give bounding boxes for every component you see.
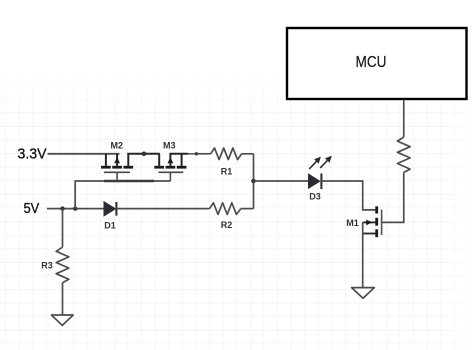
wire R1 down to junction (253, 154, 255, 209)
bulk lead M1 with arrow (363, 221, 376, 223)
resistor R2 (210, 203, 254, 215)
transistor M2 (pass FET) (101, 154, 133, 181)
wire R4 to gate of M1 (382, 172, 403, 222)
wire MCU to resistor R4 (403, 100, 405, 138)
gate lead M3 (169, 172, 171, 181)
gate plate M3 (159, 171, 184, 173)
resistor R1 (197, 148, 254, 160)
gate lead M2 (116, 172, 118, 181)
wire M3 to node A (188, 153, 196, 155)
wire source/bulk down to ground (362, 222, 364, 287)
svg-text:MCU: MCU (356, 54, 387, 71)
LED arrow 2 (320, 160, 328, 168)
diode D1 (104, 202, 210, 216)
svg-text:5V: 5V (24, 200, 40, 217)
LED arrow 1 (309, 161, 317, 169)
gate plate M2 (104, 171, 130, 173)
ground symbol right (352, 288, 375, 299)
stub bulk M3 with arrow (169, 154, 171, 166)
junction dot 5V/gate bus (73, 206, 77, 210)
wire D3 to M1 drain (321, 181, 375, 210)
source lead M1 (363, 233, 376, 235)
gate plate M1 (381, 210, 383, 235)
wire M3 source rail (169, 153, 188, 155)
node A dot (195, 152, 198, 155)
stub bulk M2 with arrow (116, 154, 118, 166)
stub drain M3 (158, 154, 160, 166)
channel bars M1 (375, 206, 378, 213)
svg-text:D3: D3 (309, 192, 321, 202)
LED D3 (309, 156, 332, 189)
svg-text:M2: M2 (111, 141, 124, 151)
junction dot R1/R2/D3 (251, 179, 256, 184)
svg-text:R2: R2 (221, 220, 233, 230)
junction dot 5V/R3 (60, 206, 64, 210)
wire 5V to R3 (62, 209, 64, 248)
wire junction to LED D3 (254, 180, 309, 182)
svg-text:R1: R1 (221, 166, 233, 176)
wire M2 drain to M3 drain (127, 153, 160, 155)
stub source M2 (105, 154, 107, 166)
channel bars M3 (154, 166, 164, 169)
transistor M3 (pass FET) (154, 154, 186, 181)
channel bars M2 (101, 166, 111, 169)
svg-text:D1: D1 (104, 220, 116, 230)
svg-text:M3: M3 (163, 141, 176, 151)
MCU U1 box (287, 28, 467, 99)
ground symbol left (51, 315, 73, 325)
svg-text:3.3V: 3.3V (18, 145, 47, 162)
transistor M1 (363, 206, 382, 287)
junction dot M2-M3 (142, 152, 147, 157)
resistor R4 (unlabeled, below MCU) (397, 137, 410, 172)
stub source M3 (181, 154, 183, 166)
wire gate bus overlap segment (104, 180, 154, 182)
wire gate bus from 5V up and across to M2/M3 gates (75, 181, 170, 209)
svg-text:R3: R3 (41, 261, 53, 271)
wire 3.3V rail to M2 source (48, 153, 120, 155)
stub drain M2 (127, 154, 129, 166)
wire 5V rail to D1 anode (47, 208, 104, 210)
resistor R3 (56, 247, 69, 315)
svg-text:M1: M1 (346, 218, 359, 228)
